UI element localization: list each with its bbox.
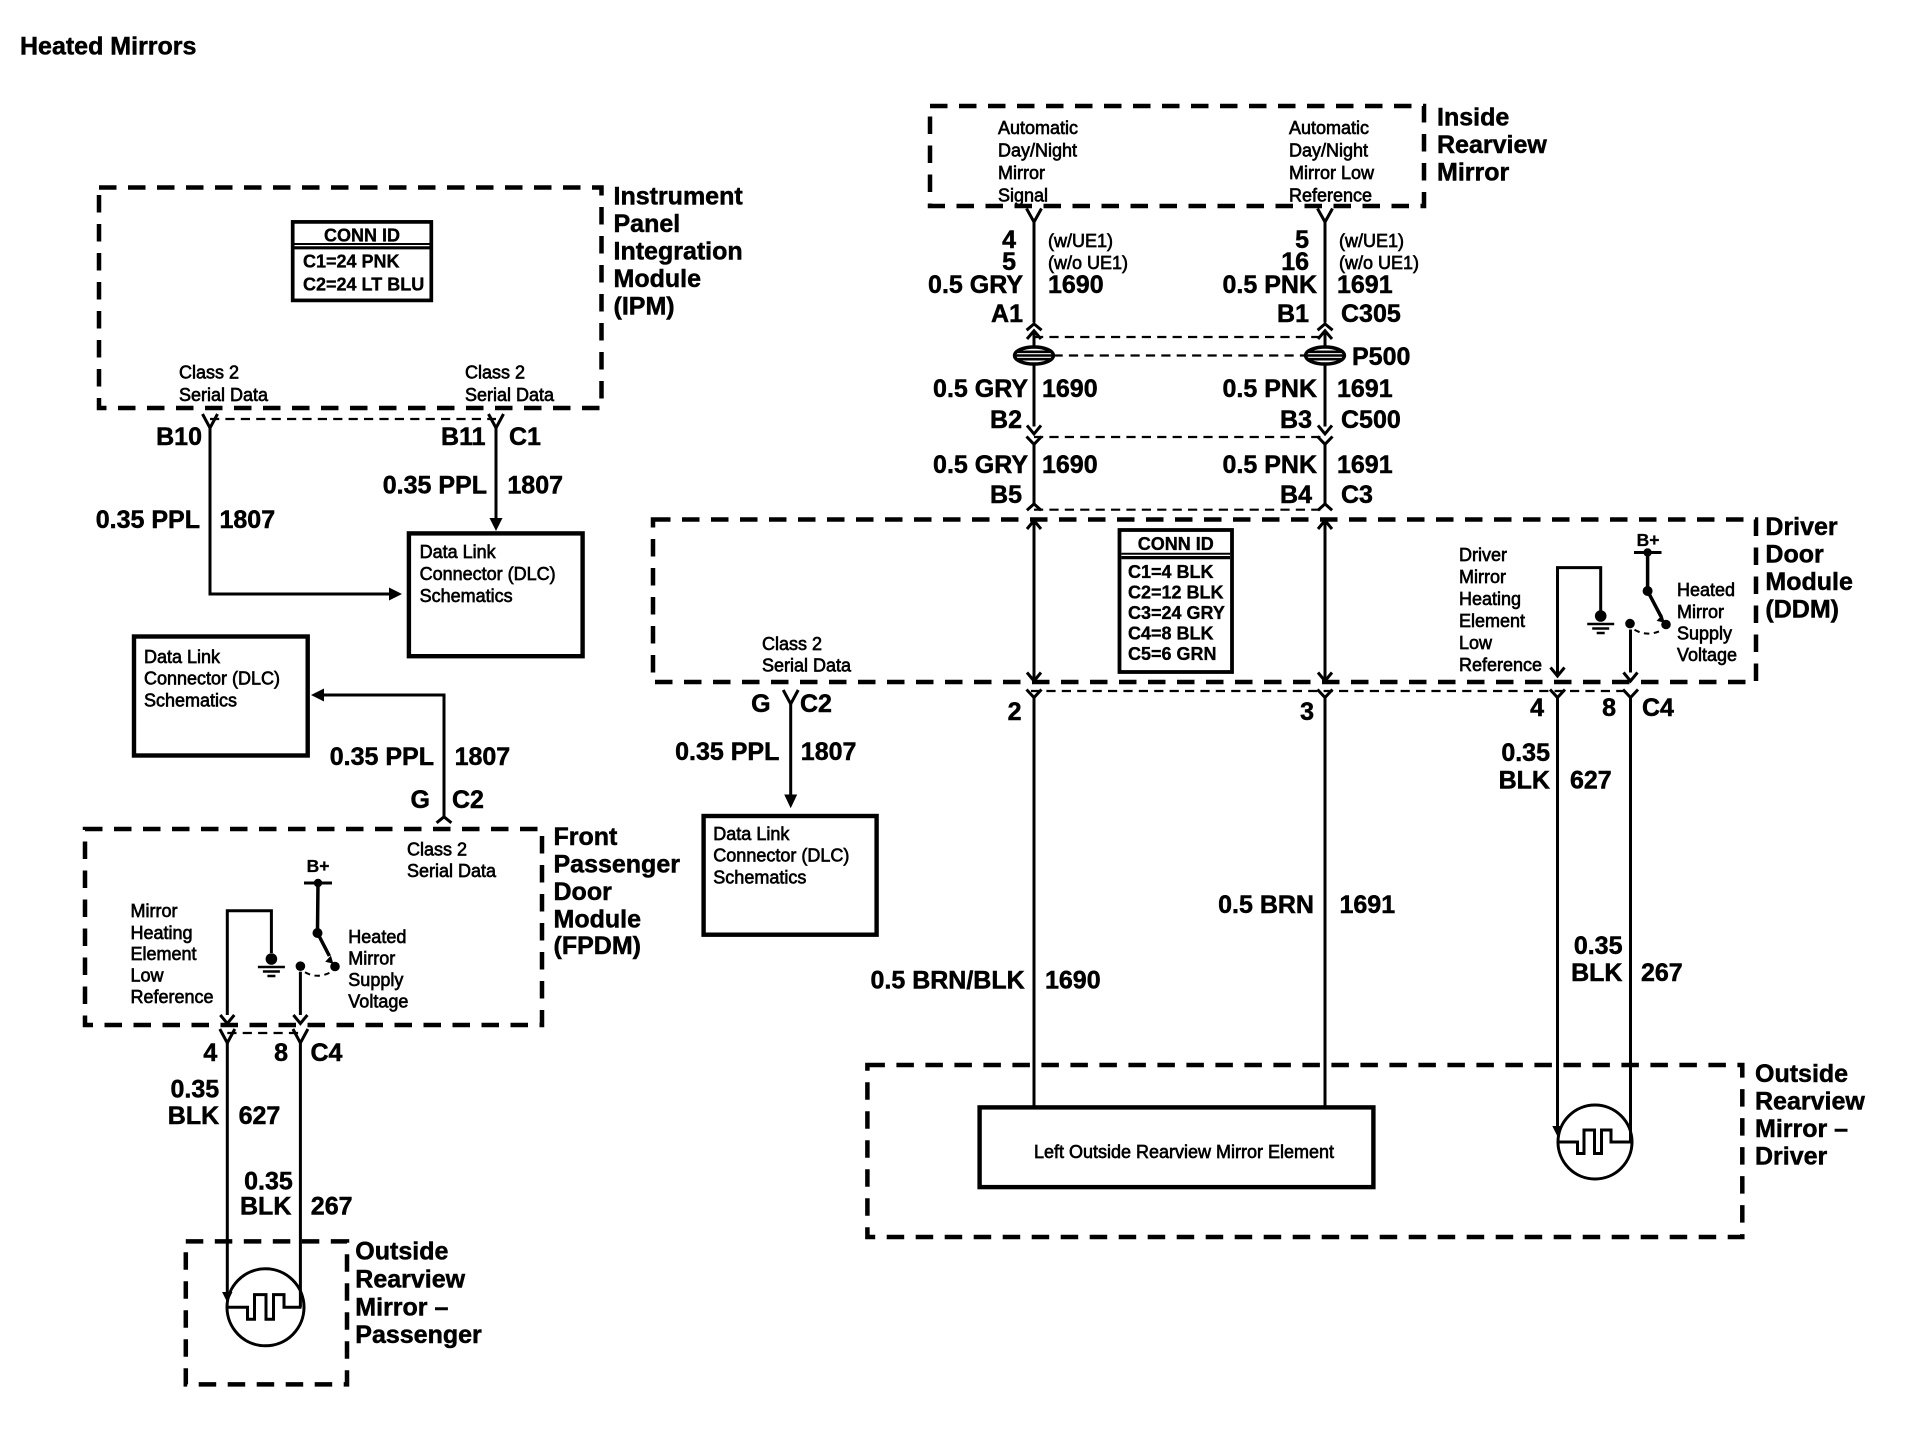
svg-text:Passenger: Passenger xyxy=(554,851,681,879)
svg-text:Connector (DLC): Connector (DLC) xyxy=(144,669,280,689)
svg-text:0.35 PPL: 0.35 PPL xyxy=(330,743,434,771)
svg-text:CONN ID: CONN ID xyxy=(324,226,400,246)
svg-text:1691: 1691 xyxy=(1337,271,1393,299)
svg-text:1691: 1691 xyxy=(1337,451,1393,479)
svg-text:G: G xyxy=(411,786,430,814)
svg-text:G: G xyxy=(751,690,770,718)
svg-text:C1=24 PNK: C1=24 PNK xyxy=(303,252,400,272)
svg-text:Serial Data: Serial Data xyxy=(465,385,555,405)
svg-text:Heating: Heating xyxy=(1459,589,1521,609)
svg-text:8: 8 xyxy=(1602,694,1616,722)
svg-text:Door: Door xyxy=(1765,541,1824,569)
svg-text:(w/UE1): (w/UE1) xyxy=(1048,231,1113,251)
svg-text:C500: C500 xyxy=(1341,406,1401,434)
svg-text:1690: 1690 xyxy=(1042,375,1098,403)
svg-text:Class 2: Class 2 xyxy=(465,363,525,383)
svg-text:Day/Night: Day/Night xyxy=(998,141,1077,161)
svg-text:1690: 1690 xyxy=(1045,967,1101,995)
svg-text:(w/o UE1): (w/o UE1) xyxy=(1339,253,1419,273)
svg-text:B11: B11 xyxy=(441,423,486,451)
svg-text:Serial Data: Serial Data xyxy=(762,656,852,676)
svg-text:C2: C2 xyxy=(452,786,484,814)
svg-text:0.5 PNK: 0.5 PNK xyxy=(1223,451,1317,479)
svg-text:Front: Front xyxy=(554,823,619,851)
svg-text:C3=24 GRY: C3=24 GRY xyxy=(1128,603,1225,623)
svg-text:Rearview: Rearview xyxy=(1437,131,1547,159)
svg-text:1690: 1690 xyxy=(1042,451,1098,479)
svg-text:267: 267 xyxy=(311,1193,353,1221)
svg-text:B+: B+ xyxy=(307,856,330,876)
svg-text:CONN ID: CONN ID xyxy=(1138,534,1214,554)
svg-text:2: 2 xyxy=(1008,698,1022,726)
svg-text:Left Outside Rearview Mirror E: Left Outside Rearview Mirror Element xyxy=(1034,1142,1334,1162)
svg-text:Module: Module xyxy=(614,265,702,293)
svg-text:1807: 1807 xyxy=(220,506,276,534)
svg-text:C4: C4 xyxy=(311,1039,343,1067)
svg-text:Mirror –: Mirror – xyxy=(355,1293,448,1321)
svg-text:Mirror: Mirror xyxy=(1677,602,1724,622)
svg-text:1690: 1690 xyxy=(1048,271,1104,299)
svg-text:Outside: Outside xyxy=(355,1238,448,1266)
svg-text:0.35: 0.35 xyxy=(1501,739,1550,767)
svg-text:Signal: Signal xyxy=(998,186,1048,206)
svg-text:B3: B3 xyxy=(1280,406,1312,434)
svg-text:Driver: Driver xyxy=(1755,1143,1828,1171)
svg-text:1807: 1807 xyxy=(455,743,511,771)
svg-text:0.5 GRY: 0.5 GRY xyxy=(933,375,1028,403)
svg-text:C4=8 BLK: C4=8 BLK xyxy=(1128,624,1214,644)
svg-text:4: 4 xyxy=(203,1039,217,1067)
svg-text:Class 2: Class 2 xyxy=(407,840,467,860)
svg-text:C2: C2 xyxy=(800,690,832,718)
svg-text:Connector (DLC): Connector (DLC) xyxy=(420,564,556,584)
svg-text:0.5 PNK: 0.5 PNK xyxy=(1223,375,1317,403)
svg-text:Heated: Heated xyxy=(1677,580,1735,600)
svg-text:Mirror Low: Mirror Low xyxy=(1289,163,1375,183)
svg-text:3: 3 xyxy=(1300,698,1314,726)
svg-text:0.35 PPL: 0.35 PPL xyxy=(96,506,200,534)
svg-text:Mirror: Mirror xyxy=(131,901,178,921)
svg-text:Mirror: Mirror xyxy=(998,163,1045,183)
svg-text:Serial Data: Serial Data xyxy=(407,861,497,881)
svg-text:C5=6 GRN: C5=6 GRN xyxy=(1128,644,1217,664)
svg-text:Rearview: Rearview xyxy=(1755,1088,1865,1116)
svg-text:Panel: Panel xyxy=(614,210,681,238)
svg-text:Heating: Heating xyxy=(131,923,193,943)
svg-text:B+: B+ xyxy=(1637,530,1660,550)
svg-text:C4: C4 xyxy=(1642,694,1674,722)
svg-text:1691: 1691 xyxy=(1337,375,1393,403)
svg-text:0.35: 0.35 xyxy=(244,1168,293,1196)
svg-text:Day/Night: Day/Night xyxy=(1289,141,1368,161)
svg-text:(IPM): (IPM) xyxy=(614,293,675,321)
svg-text:Data Link: Data Link xyxy=(420,542,497,562)
svg-text:Module: Module xyxy=(1765,568,1853,596)
svg-text:Data Link: Data Link xyxy=(713,824,790,844)
svg-text:Serial Data: Serial Data xyxy=(179,385,269,405)
svg-text:0.5 GRY: 0.5 GRY xyxy=(928,271,1023,299)
svg-text:Mirror –: Mirror – xyxy=(1755,1115,1848,1143)
svg-text:Voltage: Voltage xyxy=(1677,645,1737,665)
svg-text:Supply: Supply xyxy=(348,970,403,990)
svg-text:267: 267 xyxy=(1641,959,1683,987)
svg-text:C3: C3 xyxy=(1341,481,1373,509)
svg-text:Driver: Driver xyxy=(1765,513,1838,541)
svg-text:P500: P500 xyxy=(1352,343,1410,371)
svg-text:0.35: 0.35 xyxy=(1574,932,1623,960)
svg-text:Connector (DLC): Connector (DLC) xyxy=(713,846,849,866)
svg-text:(FPDM): (FPDM) xyxy=(554,932,641,960)
svg-text:Heated: Heated xyxy=(348,927,406,947)
svg-text:1807: 1807 xyxy=(507,472,563,500)
svg-text:BLK: BLK xyxy=(1499,767,1550,795)
svg-text:Element: Element xyxy=(1459,611,1525,631)
svg-text:BLK: BLK xyxy=(1571,959,1622,987)
svg-text:1691: 1691 xyxy=(1340,891,1396,919)
svg-text:B4: B4 xyxy=(1280,481,1312,509)
svg-text:Driver: Driver xyxy=(1459,545,1507,565)
svg-text:Schematics: Schematics xyxy=(713,868,806,888)
svg-text:0.5 GRY: 0.5 GRY xyxy=(933,451,1028,479)
svg-text:Automatic: Automatic xyxy=(998,118,1078,138)
svg-text:Instrument: Instrument xyxy=(614,183,744,211)
svg-text:C1=4 BLK: C1=4 BLK xyxy=(1128,562,1214,582)
svg-text:0.35 PPL: 0.35 PPL xyxy=(383,472,487,500)
svg-text:Mirror: Mirror xyxy=(1459,567,1506,587)
svg-text:B10: B10 xyxy=(156,423,202,451)
svg-text:0.5 PNK: 0.5 PNK xyxy=(1223,271,1317,299)
svg-text:(w/o UE1): (w/o UE1) xyxy=(1048,253,1128,273)
svg-text:Inside: Inside xyxy=(1437,104,1509,132)
svg-text:Rearview: Rearview xyxy=(355,1266,465,1294)
svg-text:(DDM): (DDM) xyxy=(1765,596,1839,624)
svg-text:B5: B5 xyxy=(990,481,1022,509)
svg-text:Heated Mirrors: Heated Mirrors xyxy=(20,33,196,61)
svg-text:Outside: Outside xyxy=(1755,1060,1848,1088)
svg-text:Mirror: Mirror xyxy=(1437,159,1510,187)
svg-text:Passenger: Passenger xyxy=(355,1321,482,1349)
svg-text:Reference: Reference xyxy=(131,987,214,1007)
svg-text:Mirror: Mirror xyxy=(348,949,395,969)
svg-text:Low: Low xyxy=(131,966,165,986)
svg-text:Schematics: Schematics xyxy=(420,586,513,606)
svg-text:C1: C1 xyxy=(509,423,541,451)
svg-text:1807: 1807 xyxy=(801,738,857,766)
svg-text:0.5 BRN: 0.5 BRN xyxy=(1218,891,1314,919)
svg-text:B2: B2 xyxy=(990,406,1022,434)
svg-text:Module: Module xyxy=(554,906,642,934)
svg-text:Voltage: Voltage xyxy=(348,992,408,1012)
svg-text:C2=24 LT BLU: C2=24 LT BLU xyxy=(303,275,424,295)
svg-text:(w/UE1): (w/UE1) xyxy=(1339,231,1404,251)
svg-text:B1: B1 xyxy=(1277,300,1309,328)
svg-text:Low: Low xyxy=(1459,633,1493,653)
svg-text:Automatic: Automatic xyxy=(1289,118,1369,138)
svg-text:0.35: 0.35 xyxy=(171,1076,220,1104)
svg-text:0.5 BRN/BLK: 0.5 BRN/BLK xyxy=(871,967,1025,995)
svg-text:A1: A1 xyxy=(991,300,1023,328)
svg-text:Data Link: Data Link xyxy=(144,647,221,667)
svg-text:Schematics: Schematics xyxy=(144,691,237,711)
svg-text:Door: Door xyxy=(554,878,613,906)
svg-text:0.35 PPL: 0.35 PPL xyxy=(675,738,779,766)
svg-text:BLK: BLK xyxy=(240,1193,291,1221)
svg-text:8: 8 xyxy=(274,1039,288,1067)
svg-text:627: 627 xyxy=(1570,767,1612,795)
svg-text:Reference: Reference xyxy=(1459,655,1542,675)
svg-text:Integration: Integration xyxy=(614,238,743,266)
svg-text:Class 2: Class 2 xyxy=(762,634,822,654)
svg-text:BLK: BLK xyxy=(168,1102,219,1130)
svg-text:Class 2: Class 2 xyxy=(179,363,239,383)
svg-text:Element: Element xyxy=(131,944,197,964)
svg-text:Reference: Reference xyxy=(1289,186,1372,206)
svg-text:C305: C305 xyxy=(1341,300,1401,328)
svg-text:4: 4 xyxy=(1530,694,1544,722)
svg-text:C2=12 BLK: C2=12 BLK xyxy=(1128,583,1224,603)
svg-text:Supply: Supply xyxy=(1677,624,1732,644)
svg-text:627: 627 xyxy=(239,1102,281,1130)
